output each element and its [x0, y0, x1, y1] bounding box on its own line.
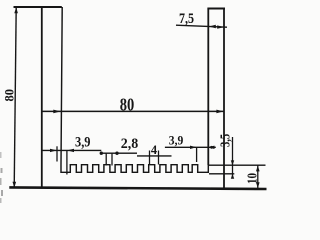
- svg-text:80: 80: [1, 89, 16, 102]
- svg-text:2,8: 2,8: [121, 136, 139, 152]
- svg-text:3,5: 3,5: [217, 134, 232, 147]
- svg-text:80: 80: [120, 95, 135, 115]
- svg-text:10: 10: [244, 173, 259, 184]
- svg-text:3,9: 3,9: [169, 133, 184, 148]
- svg-text:3,9: 3,9: [75, 134, 91, 150]
- svg-text:4: 4: [151, 143, 158, 157]
- svg-text:7,5: 7,5: [179, 11, 194, 27]
